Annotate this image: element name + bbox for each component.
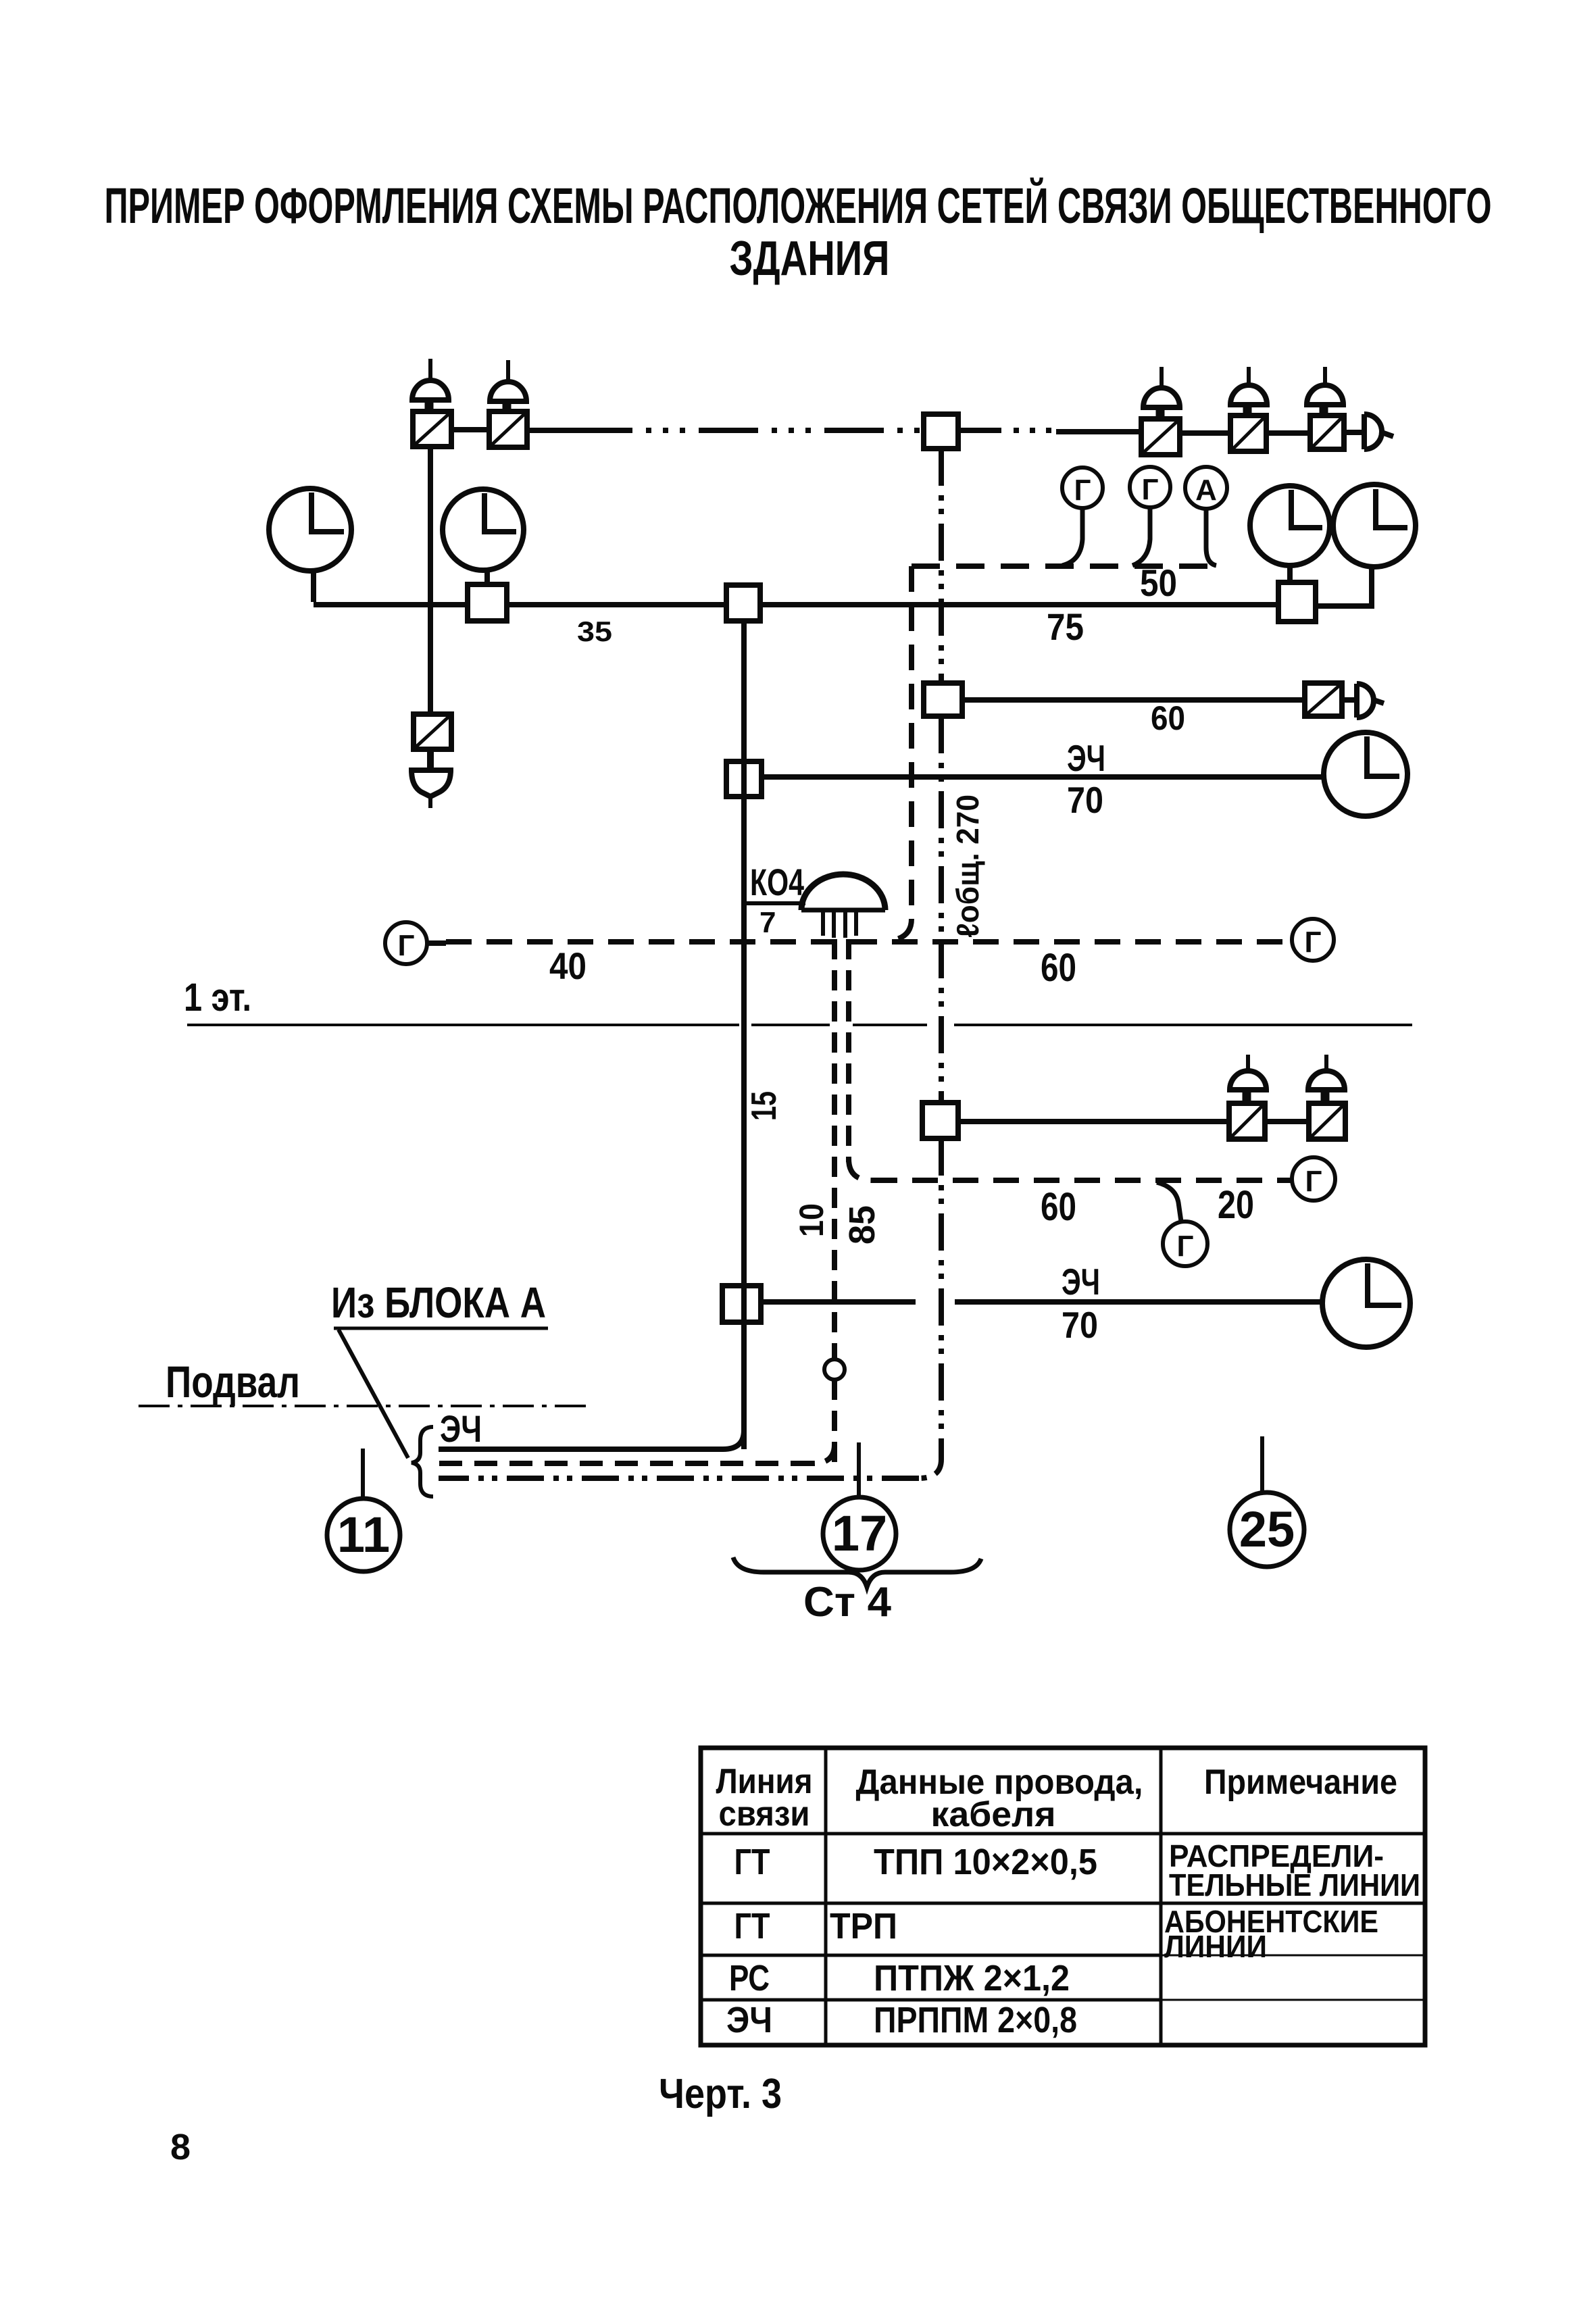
wire B1-B2 xyxy=(451,427,489,432)
svg-text:ЭЧ: ЭЧ xyxy=(1062,1261,1100,1303)
svg-text:ЗДАНИЯ: ЗДАНИЯ xyxy=(730,232,890,286)
junction box J7 xyxy=(922,1103,958,1138)
radio line J1 to right speakers xyxy=(958,428,1056,433)
floor line 1st xyxy=(187,1024,1412,1026)
svg-text:8: 8 xyxy=(170,2127,191,2167)
svg-text:1 эт.: 1 эт. xyxy=(184,976,251,1020)
loudspeaker LS6 xyxy=(1230,1055,1266,1103)
call circle G6 xyxy=(1292,1157,1335,1201)
junction box J3 (clock2) xyxy=(468,584,507,621)
call circle G3 xyxy=(1185,467,1227,565)
ECh/70 line 1 xyxy=(762,774,1324,780)
loudspeaker LS3 xyxy=(1143,367,1180,419)
svg-text:связи: связи xyxy=(719,1794,810,1834)
svg-text:ЭЧ: ЭЧ xyxy=(1067,737,1105,779)
underbrace St4 xyxy=(733,1557,981,1587)
attenuator box B1 xyxy=(413,411,451,447)
loudspeaker LS5 xyxy=(1307,367,1343,416)
svg-text:ПТПЖ 2×1,2: ПТПЖ 2×1,2 xyxy=(874,1958,1070,1998)
svg-text:25: 25 xyxy=(1239,1501,1295,1557)
svg-text:40: 40 xyxy=(549,945,587,987)
junction box J8 on V2 xyxy=(722,1286,761,1322)
stem + circle 17 xyxy=(823,1442,896,1570)
attenuator box B4 xyxy=(1230,416,1266,451)
svg-text:60: 60 xyxy=(1041,1185,1076,1229)
junction box J6 on V2 xyxy=(726,761,762,797)
svg-text:70: 70 xyxy=(1062,1304,1098,1346)
wire B4-B5 xyxy=(1266,430,1310,436)
svg-text:20: 20 xyxy=(1218,1183,1254,1227)
wire stub G4 xyxy=(427,940,446,946)
svg-text:ГТ: ГТ xyxy=(734,1906,770,1946)
hanging call circle G7 xyxy=(1157,1182,1207,1266)
svg-text:кабеля: кабеля xyxy=(931,1795,1056,1834)
label iz bloka A xyxy=(331,1278,546,1327)
call circle G1 xyxy=(1062,468,1103,565)
radio drop V1 continues to basement corner xyxy=(919,1138,941,1478)
svg-text:ЭЧ: ЭЧ xyxy=(440,1407,482,1450)
trunk V2 corner to horizontal xyxy=(723,1430,744,1449)
svg-text:ПРППМ 2×0,8: ПРППМ 2×0,8 xyxy=(874,2000,1077,2040)
svg-text:85: 85 xyxy=(842,1205,882,1244)
radio drop line V1 (dash-dot-dot vertical x=1393) xyxy=(939,449,944,683)
svg-text:ТПП 10×2×0,5: ТПП 10×2×0,5 xyxy=(874,1842,1097,1882)
svg-text:50: 50 xyxy=(1140,561,1177,604)
ECh/70 line 2 xyxy=(761,1299,1324,1305)
svg-text:75: 75 xyxy=(1047,605,1084,648)
svg-text:60: 60 xyxy=(1041,946,1076,990)
attenuator box B2 xyxy=(489,411,527,447)
clock CK4 xyxy=(1316,484,1416,606)
leader line xyxy=(339,1330,408,1458)
wire B7-B8 xyxy=(1265,1119,1309,1124)
dashed vertical V3 x=1349 xyxy=(891,566,912,940)
brace ECh xyxy=(412,1427,433,1496)
svg-text:11: 11 xyxy=(337,1507,390,1563)
attenuator box B3 xyxy=(1141,419,1180,455)
subscriber pair (double dashed) below mushroom xyxy=(832,939,837,1359)
loudspeaker LS8 (down-facing) xyxy=(412,749,451,808)
TITLE xyxy=(105,177,1492,286)
dashed line GT y=1394 xyxy=(446,939,1292,945)
basement floor line xyxy=(139,1405,586,1407)
stem + circle 25 xyxy=(1230,1436,1304,1567)
svg-text:10: 10 xyxy=(793,1203,830,1237)
svg-text:Г: Г xyxy=(1074,474,1091,507)
vertical riser from B1 xyxy=(428,447,433,714)
svg-text:Г: Г xyxy=(398,929,415,962)
wire B3-B4 xyxy=(1180,430,1230,436)
horn speaker H1 xyxy=(1344,414,1393,449)
loudspeaker LS4 xyxy=(1230,367,1267,416)
loudspeaker LS1 (top-left col) xyxy=(412,359,449,411)
svg-text:ТРП: ТРП xyxy=(830,1906,897,1946)
clock CK1 xyxy=(269,488,351,602)
60-line to speaker xyxy=(962,697,1305,703)
clock CK5 xyxy=(1324,732,1407,816)
radio drop V1 continues xyxy=(939,716,944,1103)
distribution box (mushroom) M1 xyxy=(801,874,885,938)
attenuator box B8 xyxy=(1309,1103,1345,1139)
call circle G5 xyxy=(1292,919,1334,961)
call circle G4 xyxy=(385,922,427,964)
svg-text:70: 70 xyxy=(1067,779,1103,821)
svg-text:Подвал: Подвал xyxy=(166,1357,300,1407)
svg-text:ℓобщ. 270: ℓобщ. 270 xyxy=(950,795,985,938)
small connector circle on dashed line xyxy=(824,1359,845,1380)
clock CK2 xyxy=(443,489,524,584)
radio line (dash + dots) to junction J1 xyxy=(527,428,573,433)
svg-text:60: 60 xyxy=(1151,699,1185,737)
svg-text:Г: Г xyxy=(1177,1230,1194,1263)
clock CK3 xyxy=(1250,486,1330,582)
svg-text:А: А xyxy=(1195,474,1217,507)
dashed cable bottom xyxy=(814,1444,834,1463)
svg-text:35: 35 xyxy=(577,615,612,647)
junction box J1 xyxy=(924,414,958,449)
clock line y=895 xyxy=(314,602,1278,607)
svg-text:17: 17 xyxy=(832,1505,887,1561)
svg-text:Г: Г xyxy=(1305,926,1322,959)
loudspeaker LS2 xyxy=(490,360,526,411)
junction box J5 on V1 xyxy=(924,683,962,716)
svg-text:Г: Г xyxy=(1305,1165,1322,1198)
dash-dot cable bottom xyxy=(439,1476,919,1481)
attenuator box B9 (lower) xyxy=(414,714,451,749)
svg-text:Черт. 3: Черт. 3 xyxy=(659,2071,782,2117)
svg-text:КО4: КО4 xyxy=(750,861,804,903)
attenuator box B6 xyxy=(1305,683,1342,716)
vertical trunk V2 x=1101 xyxy=(741,621,747,1449)
stem + circle 11 xyxy=(327,1449,400,1571)
dashed line GGA y=837 xyxy=(912,563,1220,569)
clock CK6 xyxy=(1322,1259,1410,1347)
svg-text:ПРИМЕР ОФОРМЛЕНИЯ СХЕМЫ РАСПОЛ: ПРИМЕР ОФОРМЛЕНИЯ СХЕМЫ РАСПОЛОЖЕНИЯ СЕТ… xyxy=(105,177,1492,234)
junction box J2 (clocks right) xyxy=(1278,582,1316,622)
svg-text:Г: Г xyxy=(1142,473,1159,506)
svg-text:15: 15 xyxy=(745,1091,784,1121)
svg-text:РС: РС xyxy=(729,1958,770,1998)
svg-text:ТЕЛЬНЫЕ ЛИНИИ: ТЕЛЬНЫЕ ЛИНИИ xyxy=(1169,1867,1420,1903)
svg-text:Из БЛОКА А: Из БЛОКА А xyxy=(331,1278,546,1327)
label KO4/7 xyxy=(750,861,804,939)
svg-text:ЛИНИИ: ЛИНИИ xyxy=(1164,1929,1267,1964)
svg-text:Примечание: Примечание xyxy=(1204,1763,1397,1802)
dashed Г line y=1747 from mushroom leg corner xyxy=(849,1159,872,1180)
call circle G2 xyxy=(1130,467,1170,565)
svg-text:Ст 4: Ст 4 xyxy=(803,1579,892,1626)
attenuator box B7 xyxy=(1229,1103,1265,1139)
loudspeaker LS7 xyxy=(1308,1055,1345,1103)
attenuator box B5 xyxy=(1310,416,1344,449)
fraction bar KO4/7 xyxy=(746,901,805,905)
horn speaker H2 xyxy=(1342,684,1384,718)
svg-text:ГТ: ГТ xyxy=(734,1842,770,1882)
svg-text:7: 7 xyxy=(759,906,776,939)
svg-text:ЭЧ: ЭЧ xyxy=(726,2000,772,2040)
junction box J4 (center) xyxy=(726,585,760,621)
